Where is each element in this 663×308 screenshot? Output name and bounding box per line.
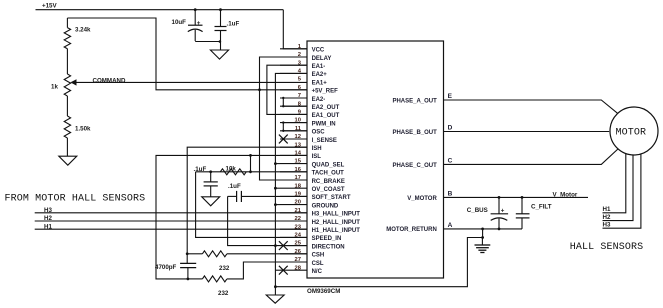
svg-text:DIRECTION: DIRECTION bbox=[312, 244, 345, 250]
capacitor .1uF (tach filter) bbox=[204, 172, 218, 197]
wire DELAY/+5V_REF/RC_BRAKE bus bbox=[260, 57, 308, 180]
resistor 232 (CSH) bbox=[202, 251, 226, 257]
pin number 18 bbox=[295, 183, 302, 189]
plus sign C_BUS bbox=[501, 207, 505, 214]
label H1 (left) bbox=[44, 223, 52, 230]
junction MOTOR_RETURN/ground tap bbox=[481, 228, 484, 231]
label +15V bbox=[42, 3, 57, 10]
label V_Motor bbox=[553, 192, 578, 199]
label 10k bbox=[226, 166, 237, 173]
svg-text:DELAY: DELAY bbox=[312, 56, 332, 62]
label 232 (lower) bbox=[218, 290, 229, 297]
wire COMMAND to EA1+ pin5 bbox=[77, 81, 308, 83]
pin 16 TACH_OUT stub bbox=[280, 171, 307, 173]
junction bottom rail/ground bbox=[274, 285, 277, 288]
svg-text:PHASE_B_OUT: PHASE_B_OUT bbox=[392, 130, 437, 136]
pin label RC_BRAKE bbox=[312, 179, 345, 185]
junction bracket PWM/OSC corners bbox=[282, 121, 284, 132]
pin 17 RC_BRAKE stub bbox=[280, 179, 307, 181]
svg-text:232: 232 bbox=[218, 290, 229, 297]
pin number 9 bbox=[298, 110, 302, 116]
svg-text:TACH_OUT: TACH_OUT bbox=[312, 171, 345, 177]
junction ISH/232 bbox=[186, 252, 189, 255]
svg-text:D: D bbox=[448, 125, 453, 132]
capacitor 4700pF bbox=[180, 263, 196, 279]
pin number 4 bbox=[298, 69, 302, 75]
pin label H1_HALL_INPUT bbox=[312, 228, 361, 234]
wire pin 15 to ground bus bbox=[275, 163, 280, 165]
svg-text:PHASE_A_OUT: PHASE_A_OUT bbox=[392, 99, 437, 105]
svg-text:ISL: ISL bbox=[312, 154, 322, 160]
resistor 1.50k bbox=[64, 116, 70, 138]
wire 232 to CSH pin bbox=[227, 253, 307, 255]
label H3 (right) bbox=[603, 222, 611, 229]
svg-text:.1uF: .1uF bbox=[227, 20, 240, 27]
wire PWM_IN to OSC bracket bbox=[283, 123, 307, 131]
pin 4 EA2+ stub bbox=[280, 72, 307, 74]
wire TACH node to SPEED_IN bbox=[196, 172, 307, 238]
svg-text:EA2-: EA2- bbox=[312, 97, 326, 103]
svg-text:EA2+: EA2+ bbox=[312, 72, 328, 78]
svg-text:V_MOTOR: V_MOTOR bbox=[407, 196, 437, 202]
pin label CSL bbox=[312, 261, 324, 267]
svg-text:EA2_OUT: EA2_OUT bbox=[312, 105, 340, 111]
label H2 (right) bbox=[603, 214, 611, 221]
ground (tach filter) bbox=[202, 197, 220, 206]
capacitor .1uF (VCC bypass) bbox=[215, 10, 227, 41]
ground (signal, center) bbox=[266, 287, 284, 304]
wire EA2+ to ground bus bbox=[275, 73, 307, 286]
svg-text:RC_BRAKE: RC_BRAKE bbox=[312, 179, 345, 185]
pin number 28 bbox=[295, 265, 302, 271]
label OM9369CM bbox=[307, 288, 340, 295]
svg-text:FROM MOTOR HALL SENSORS: FROM MOTOR HALL SENSORS bbox=[5, 193, 146, 204]
svg-text:+15V: +15V bbox=[42, 3, 57, 10]
pin number 23 bbox=[295, 224, 302, 230]
net +15V rail bbox=[36, 9, 284, 11]
potentiometer 1k bbox=[64, 74, 70, 96]
capacitor C_FILT bbox=[516, 197, 530, 229]
junction ground bus/DIRECTION row bbox=[274, 244, 277, 247]
pin number 3 bbox=[298, 60, 302, 66]
pin number 8 bbox=[298, 101, 302, 107]
svg-text:EA1-: EA1- bbox=[312, 64, 326, 70]
pin number 21 bbox=[295, 208, 302, 214]
junction ISL/TACH tap bbox=[249, 154, 252, 157]
wire MOTOR_RETURN rail bbox=[444, 228, 523, 230]
label 1k bbox=[51, 83, 58, 90]
ground (VCC bypass) bbox=[210, 50, 228, 59]
label HALL SENSORS bbox=[570, 242, 643, 253]
pin number 20 bbox=[295, 200, 301, 206]
wire pin 18 to ground bus bbox=[275, 187, 280, 189]
svg-text:CSH: CSH bbox=[312, 253, 325, 259]
pin 12 I_SENSE stub bbox=[280, 138, 307, 140]
svg-text:.1uF: .1uF bbox=[228, 183, 241, 190]
svg-text:PWM_IN: PWM_IN bbox=[312, 121, 336, 127]
svg-text:C_BUS: C_BUS bbox=[467, 207, 488, 214]
svg-text:H2_HALL_INPUT: H2_HALL_INPUT bbox=[312, 220, 361, 226]
svg-text:+5V_REF: +5V_REF bbox=[312, 89, 339, 95]
wire ISL down left side bbox=[156, 155, 307, 279]
wire CSL-ground return rail bbox=[275, 229, 482, 287]
wire divider top to 3.24k bbox=[66, 18, 68, 28]
pin 6 +5V_REF stub bbox=[280, 89, 307, 91]
wire pin 28 to ground bus bbox=[275, 269, 280, 271]
wire 1.50k to ground bbox=[66, 138, 68, 156]
svg-text:CSL: CSL bbox=[312, 261, 324, 267]
wire V_MOTOR rail bbox=[444, 196, 589, 198]
pin label ISH bbox=[312, 146, 322, 152]
label COMMAND bbox=[93, 78, 127, 85]
label 10uF bbox=[172, 19, 187, 26]
pin label DIRECTION bbox=[312, 244, 345, 250]
capacitor .1uF (soft start) bbox=[228, 191, 307, 202]
label .1uF (tach) bbox=[194, 166, 207, 173]
pin label H3_HALL_INPUT bbox=[312, 212, 361, 218]
pin number 27 bbox=[295, 257, 301, 263]
wire PHASE_C_OUT to motor bbox=[444, 148, 620, 165]
svg-text:E: E bbox=[448, 93, 453, 100]
wire ISH to CSH 232 bbox=[187, 253, 202, 255]
pin label EA1_OUT bbox=[312, 113, 340, 119]
wire EA2- to EA2_OUT bracket bbox=[283, 98, 307, 106]
pin number 16 bbox=[295, 167, 302, 173]
label 1.50k bbox=[75, 126, 91, 133]
pin 11 OSC stub bbox=[280, 130, 307, 132]
pin label TACH_OUT bbox=[312, 171, 345, 177]
wire 232 to CSL pin bbox=[227, 262, 307, 279]
pin label CSH bbox=[312, 253, 325, 259]
pin label H2_HALL_INPUT bbox=[312, 220, 361, 226]
label H1 (right) bbox=[603, 206, 611, 213]
no-connect X pin 12 bbox=[279, 135, 288, 144]
svg-text:ISH: ISH bbox=[312, 146, 322, 152]
junction ground bus/GROUND pin bbox=[274, 203, 277, 206]
svg-text:COMMAND: COMMAND bbox=[93, 78, 127, 85]
label C_FILT bbox=[531, 204, 552, 211]
resistor 232 (CSL) bbox=[202, 276, 226, 282]
pin number 1 bbox=[298, 44, 302, 50]
svg-text:232: 232 bbox=[219, 265, 230, 272]
pin number 7 bbox=[298, 93, 301, 99]
pin 20 GROUND stub bbox=[280, 204, 307, 206]
pin 19 SOFT_START stub bbox=[280, 195, 307, 197]
svg-text:GROUND: GROUND bbox=[312, 203, 339, 209]
ground (divider) bbox=[59, 156, 77, 165]
svg-text:1.50k: 1.50k bbox=[75, 126, 91, 133]
wire PHASE_B_OUT to motor bbox=[444, 131, 610, 133]
svg-text:H1_HALL_INPUT: H1_HALL_INPUT bbox=[312, 228, 361, 234]
svg-text:C: C bbox=[448, 158, 453, 165]
pin number 13 bbox=[295, 142, 302, 148]
pin 13 ISH stub bbox=[280, 146, 307, 148]
label .1uF (soft start) bbox=[228, 183, 241, 190]
pin 3 EA1- stub bbox=[280, 64, 307, 66]
wire cap bottoms join bbox=[195, 40, 221, 50]
svg-text:SOFT_START: SOFT_START bbox=[312, 195, 351, 201]
svg-text:PHASE_C_OUT: PHASE_C_OUT bbox=[392, 163, 437, 169]
pin E PHASE_A_OUT bbox=[392, 93, 452, 104]
pin 27 CSL stub bbox=[280, 261, 307, 263]
pin A MOTOR_RETURN bbox=[386, 222, 452, 233]
svg-text:SPEED_IN: SPEED_IN bbox=[312, 236, 342, 242]
svg-text:15: 15 bbox=[295, 159, 302, 165]
pin label VCC bbox=[312, 48, 325, 54]
pin number 2 bbox=[298, 52, 301, 58]
junction V_MOTOR/C_BUS bbox=[498, 196, 501, 199]
pin number 26 bbox=[295, 249, 302, 255]
svg-text:HALL SENSORS: HALL SENSORS bbox=[570, 242, 643, 253]
svg-text:QUAD_SEL: QUAD_SEL bbox=[312, 162, 345, 168]
label H2 (left) bbox=[44, 215, 52, 222]
no-connect X pin 25 bbox=[279, 241, 288, 250]
label C_BUS bbox=[467, 207, 488, 214]
pin label OV_COAST bbox=[312, 187, 345, 193]
wire 3.24k to pot bbox=[66, 49, 68, 74]
pin number 24 bbox=[295, 233, 302, 239]
svg-text:OM9369CM: OM9369CM bbox=[307, 288, 340, 295]
wire ISL to TACH node bbox=[250, 155, 252, 171]
capacitor C_BUS (polarized) bbox=[491, 197, 509, 229]
junction MOTOR_RETURN/C_BUS bbox=[498, 228, 501, 231]
wire ISH to filter bbox=[187, 147, 307, 263]
pin number 5 bbox=[298, 77, 302, 83]
svg-text:28: 28 bbox=[295, 265, 302, 271]
pin 24 SPEED_IN stub bbox=[280, 236, 307, 238]
pin label +5V_REF bbox=[312, 89, 339, 95]
pin 14 ISL stub bbox=[280, 154, 307, 156]
svg-text:+: + bbox=[501, 207, 505, 214]
junction TACH/ISL tap bbox=[249, 170, 252, 173]
svg-text:H1: H1 bbox=[603, 206, 611, 213]
junction ground bus/OV_COAST bbox=[274, 187, 277, 190]
pin 15 QUAD_SEL stub bbox=[280, 163, 307, 165]
junction V_MOTOR/C_FILT bbox=[521, 196, 524, 199]
pin label ISL bbox=[312, 154, 322, 160]
label 4700pF bbox=[155, 264, 177, 271]
svg-text:+: + bbox=[197, 20, 201, 27]
wire H3 to IC bbox=[35, 212, 307, 214]
pin number 15 bbox=[295, 159, 302, 165]
label FROM MOTOR HALL SENSORS bbox=[5, 193, 146, 204]
wire EA1- to EA1_OUT bbox=[267, 65, 307, 114]
svg-text:12: 12 bbox=[295, 134, 301, 140]
ground (power earth) bbox=[475, 238, 491, 253]
label H3 (left) bbox=[44, 207, 52, 214]
pin label SOFT_START bbox=[312, 195, 351, 201]
no-connect X pin 28 bbox=[279, 266, 288, 275]
pin label GROUND bbox=[312, 203, 339, 209]
svg-text:VCC: VCC bbox=[312, 48, 325, 54]
pin 21 H3_HALL_INPUT stub bbox=[280, 212, 307, 214]
pin number 25 bbox=[295, 241, 302, 247]
svg-text:EA1_OUT: EA1_OUT bbox=[312, 113, 340, 119]
wire ISL rail to 232 bbox=[188, 278, 203, 280]
pin label EA2+ bbox=[312, 72, 328, 78]
pin label EA1+ bbox=[312, 80, 328, 86]
pin label OSC bbox=[312, 130, 326, 136]
pin 1 VCC stub bbox=[280, 48, 307, 50]
pin 2 DELAY stub bbox=[280, 56, 307, 58]
wire PHASE_A_OUT to motor bbox=[444, 100, 620, 115]
pin 28 N/C stub bbox=[280, 269, 307, 271]
junction earth stem bbox=[481, 236, 484, 239]
junction bus/+5V_REF bbox=[258, 88, 261, 91]
pin 10 PWM_IN stub bbox=[280, 122, 307, 124]
pin 18 OV_COAST stub bbox=[280, 187, 307, 189]
svg-text:N/C: N/C bbox=[312, 269, 323, 275]
wire +5V_REF to divider top bbox=[67, 18, 307, 90]
svg-text:OSC: OSC bbox=[312, 130, 326, 136]
svg-text:A: A bbox=[448, 222, 453, 229]
pin 8 EA2_OUT stub bbox=[280, 105, 307, 107]
svg-text:H3_HALL_INPUT: H3_HALL_INPUT bbox=[312, 212, 361, 218]
svg-text:MOTOR_RETURN: MOTOR_RETURN bbox=[386, 227, 437, 233]
wire motor hall H3 bbox=[603, 154, 641, 229]
pin 25 DIRECTION stub bbox=[280, 245, 307, 247]
svg-text:10uF: 10uF bbox=[172, 19, 187, 26]
label 232 (upper) bbox=[219, 265, 230, 272]
junction TACH/.1uF bbox=[209, 170, 212, 173]
svg-text:C_FILT: C_FILT bbox=[531, 204, 552, 211]
op-amp/controller U1 OM9369CM body bbox=[307, 41, 444, 278]
svg-text:18: 18 bbox=[295, 183, 302, 189]
pin D PHASE_B_OUT bbox=[392, 125, 452, 136]
wire H1 to IC bbox=[35, 228, 307, 230]
svg-text:3.24k: 3.24k bbox=[75, 27, 91, 34]
svg-text:10k: 10k bbox=[226, 166, 237, 173]
junction bracket EA2 corners bbox=[282, 97, 284, 108]
svg-text:V_Motor: V_Motor bbox=[553, 192, 578, 199]
pin label SPEED_IN bbox=[312, 236, 342, 242]
svg-text:B: B bbox=[448, 191, 453, 198]
pin label EA1- bbox=[312, 64, 326, 70]
plus sign 10uF bbox=[197, 20, 201, 27]
pin number 6 bbox=[298, 85, 302, 91]
svg-text:4700pF: 4700pF bbox=[155, 264, 177, 271]
pin label I_SENSE bbox=[312, 138, 337, 144]
wire pin 20 to ground bus bbox=[275, 204, 280, 206]
svg-text:EA1+: EA1+ bbox=[312, 80, 328, 86]
pin 9 EA1_OUT stub bbox=[280, 113, 307, 115]
pin number 11 bbox=[295, 126, 302, 132]
label 3.24k bbox=[75, 27, 91, 34]
svg-text:1k: 1k bbox=[51, 83, 58, 90]
pin number 12 bbox=[295, 134, 301, 140]
pin label DELAY bbox=[312, 56, 332, 62]
pin C PHASE_C_OUT bbox=[392, 158, 452, 169]
resistor 3.24k bbox=[64, 28, 70, 49]
pin label EA2_OUT bbox=[312, 105, 340, 111]
wire soft start cap to ground row bbox=[228, 196, 307, 245]
pin 7 EA2- stub bbox=[280, 97, 307, 99]
pin number 14 bbox=[295, 151, 302, 157]
wire pot to 1.50k bbox=[66, 96, 68, 116]
pin B V_MOTOR bbox=[407, 191, 452, 202]
pin label PWM_IN bbox=[312, 121, 336, 127]
resistor 10k bbox=[220, 169, 246, 175]
svg-text:H3: H3 bbox=[603, 222, 611, 229]
pin number 17 bbox=[295, 175, 301, 181]
wire motor hall H2 bbox=[603, 155, 634, 221]
pin label QUAD_SEL bbox=[312, 162, 345, 168]
pin label N/C bbox=[312, 269, 323, 275]
pin 23 H1_HALL_INPUT stub bbox=[280, 228, 307, 230]
pin number 10 bbox=[295, 118, 301, 124]
svg-text:I_SENSE: I_SENSE bbox=[312, 138, 337, 144]
wire TACH_OUT row bbox=[196, 171, 307, 173]
svg-text:H2: H2 bbox=[603, 214, 611, 221]
svg-text:OV_COAST: OV_COAST bbox=[312, 187, 345, 193]
pin 26 CSH stub bbox=[280, 253, 307, 255]
junction ground bus/QUAD_SEL bbox=[274, 162, 277, 165]
motor M1 bbox=[610, 107, 658, 155]
pot wiper arrow bbox=[70, 79, 76, 85]
label .1uF bbox=[227, 20, 240, 27]
svg-text:MOTOR: MOTOR bbox=[616, 128, 647, 139]
capacitor 10uF (polarized) bbox=[188, 10, 203, 41]
pin number 22 bbox=[295, 216, 301, 222]
pin number 19 bbox=[295, 192, 302, 198]
wire H2 to IC bbox=[35, 220, 307, 222]
wire VCC pin1 from rail bbox=[283, 10, 307, 49]
junction rail/.1uF bbox=[219, 8, 222, 11]
svg-text:20: 20 bbox=[295, 200, 301, 206]
pin 22 H2_HALL_INPUT stub bbox=[280, 220, 307, 222]
pin label EA2- bbox=[312, 97, 326, 103]
junction 4700pF/ISL rail bbox=[187, 278, 190, 281]
wire motor hall H1 bbox=[603, 154, 626, 213]
junction rail/10uF bbox=[194, 8, 197, 11]
